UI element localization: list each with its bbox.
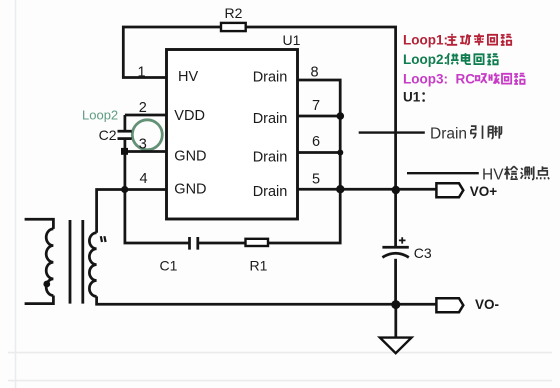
- svg-text:6: 6: [312, 134, 320, 150]
- svg-text:HV: HV: [482, 167, 504, 184]
- svg-text:Loop2: Loop2: [82, 108, 118, 123]
- svg-text:VDD: VDD: [174, 108, 205, 124]
- svg-text:VO+: VO+: [470, 184, 498, 199]
- svg-text:Drain: Drain: [253, 184, 288, 200]
- svg-text:3: 3: [139, 137, 147, 153]
- svg-text:Drain: Drain: [430, 126, 467, 143]
- svg-text:1: 1: [137, 65, 145, 81]
- svg-text:2: 2: [139, 100, 147, 116]
- svg-text:4: 4: [140, 171, 148, 187]
- svg-text:GND: GND: [174, 182, 206, 198]
- svg-text:C2: C2: [99, 127, 117, 143]
- svg-text:R1: R1: [250, 258, 268, 274]
- svg-text:Drain: Drain: [253, 111, 288, 127]
- svg-text:Loop3:: Loop3:: [403, 72, 448, 87]
- svg-text:R2: R2: [225, 5, 243, 21]
- svg-text:C3: C3: [414, 245, 432, 261]
- svg-text:VO-: VO-: [475, 297, 499, 312]
- svg-text:U1: U1: [283, 32, 301, 48]
- svg-text:RC: RC: [456, 72, 476, 87]
- svg-text:8: 8: [310, 65, 318, 81]
- svg-text:Loop2:: Loop2:: [403, 52, 448, 67]
- svg-text:GND: GND: [174, 149, 206, 165]
- svg-text:HV: HV: [178, 69, 198, 85]
- svg-text:Drain: Drain: [253, 150, 288, 166]
- svg-text:5: 5: [312, 172, 320, 188]
- svg-text:U1：: U1：: [403, 90, 434, 105]
- svg-text:Drain: Drain: [253, 70, 288, 86]
- svg-text:7: 7: [312, 98, 320, 114]
- svg-text:C1: C1: [160, 258, 178, 274]
- svg-text:Loop1:: Loop1:: [403, 33, 448, 48]
